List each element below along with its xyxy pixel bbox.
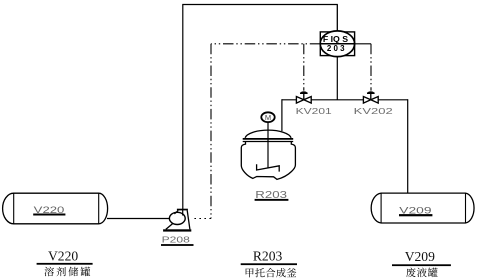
- svg-text:R203: R203: [253, 249, 283, 264]
- wire instrument to header: [336, 55, 338, 99]
- wire top horizontal run: [182, 4, 337, 6]
- svg-text:KV202: KV202: [354, 107, 394, 116]
- label R203 rule: [241, 263, 297, 265]
- tank V220 right seam: [98, 193, 100, 224]
- valve KV201 body: [296, 97, 311, 104]
- valve KV201 actuator dome: [300, 93, 308, 94]
- tank V209 tag underline: [399, 214, 432, 216]
- reactor R203 dome head: [245, 130, 291, 138]
- svg-text:F IQ S: F IQ S: [323, 35, 349, 44]
- svg-text:M: M: [265, 113, 271, 122]
- label R203 chinese 甲托合成釜: [246, 268, 254, 277]
- reactor R203 flange line 1: [243, 138, 294, 140]
- tank V209 left seam: [380, 193, 382, 223]
- signal line vertical down to pump: [210, 44, 212, 219]
- pump P208 discharge flange: [177, 209, 188, 211]
- instrument FIQS-203 ellipse: [320, 31, 354, 57]
- valve KV202 body: [363, 97, 378, 104]
- valve KV201 stem: [303, 93, 305, 100]
- signal line down to valve KV201: [303, 44, 305, 91]
- pump P208 casing circle: [169, 212, 185, 224]
- wire V220 suction to pump: [107, 218, 170, 220]
- svg-text:V220: V220: [48, 249, 78, 264]
- label V220 rule: [37, 263, 93, 265]
- pump P208 support left slant: [166, 223, 173, 229]
- pump P208 stem into casing: [182, 210, 184, 216]
- svg-text:P208: P208: [162, 236, 191, 245]
- pump P208 base plate: [163, 229, 191, 231]
- wire valve header: [282, 99, 408, 101]
- valve KV202 actuator dome: [367, 93, 375, 94]
- pump P208 discharge cone left: [174, 210, 178, 214]
- reactor R203 paddle agitator: [257, 164, 280, 171]
- reactor R203 motor M: [261, 112, 274, 122]
- tank V209 shell: [371, 193, 474, 223]
- wire pump discharge riser: [182, 5, 184, 210]
- signal line down to valve KV202: [370, 44, 372, 91]
- label V220 chinese 溶剂储罐: [44, 267, 54, 277]
- tank V220 shell: [3, 193, 108, 224]
- signal line horizontal into pump: [192, 218, 212, 220]
- label V209 chinese 废液罐: [406, 268, 416, 278]
- svg-text:V209: V209: [399, 205, 431, 215]
- valve KV202 stem: [370, 93, 372, 100]
- svg-text:V220: V220: [34, 205, 65, 215]
- reactor R203 body: [241, 142, 295, 180]
- pump P208 label underline: [161, 244, 194, 246]
- signal line instrument right stub: [355, 43, 371, 45]
- pump P208 support right slant: [187, 210, 190, 229]
- tank V209 right seam: [465, 193, 467, 223]
- svg-text:KV201: KV201: [296, 107, 333, 116]
- svg-text:2 0 3: 2 0 3: [327, 44, 345, 53]
- wire drop into tank V209: [407, 99, 409, 193]
- tank V220 tag underline: [33, 214, 65, 216]
- svg-text:V209: V209: [405, 249, 435, 264]
- label V209 rule: [392, 264, 451, 266]
- wire drop to instrument FIQS203: [336, 5, 338, 33]
- reactor R203 tag underline: [255, 199, 289, 201]
- wire drop into reactor R203: [281, 99, 283, 131]
- instrument FIQS-203 shared display square: [320, 32, 354, 56]
- reactor R203 flange line 2: [243, 141, 294, 143]
- tank V220 left seam: [13, 193, 15, 224]
- reactor R203 agitator shaft: [267, 122, 269, 168]
- signal line instrument to left corner: [211, 43, 320, 45]
- instrument midline: [320, 43, 354, 45]
